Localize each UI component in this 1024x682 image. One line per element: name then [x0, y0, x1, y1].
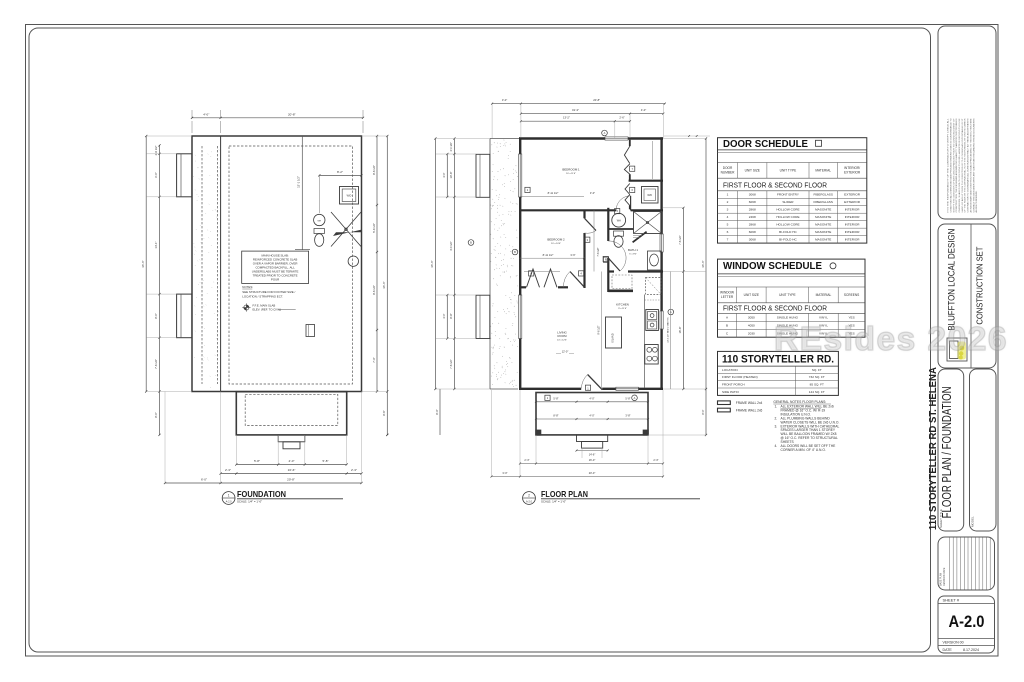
REsides watermark: [774, 321, 1008, 359]
svg-text:7'-6 1/2": 7'-6 1/2": [154, 359, 158, 369]
svg-text:FIBERGLASS: FIBERGLASS: [813, 200, 832, 204]
foundation slab outline: [192, 136, 362, 392]
window schedule tag symbol: [830, 263, 836, 269]
foundation porch slab: [236, 392, 346, 435]
bath toilet: [614, 231, 624, 236]
door schedule tag symbol: [816, 140, 822, 146]
svg-text:FRAME WALL 2x4: FRAME WALL 2x4: [736, 401, 763, 405]
svg-text:REVISION DATE: REVISION DATE: [943, 567, 946, 586]
svg-text:POUR: POUR: [271, 277, 279, 281]
svg-text:2868: 2868: [749, 208, 756, 212]
entry door tag: [585, 385, 590, 390]
svg-text:NUMBER: NUMBER: [721, 170, 736, 174]
svg-text:4'-0": 4'-0": [442, 172, 446, 177]
svg-text:SHEET TITLE: SHEET TITLE: [939, 509, 943, 528]
svg-text:8'-2": 8'-2": [337, 170, 343, 174]
svg-text:VERSION 00: VERSION 00: [943, 640, 964, 644]
svg-text:4'-0": 4'-0": [641, 108, 646, 112]
interior wall bedrooms divider: [519, 209, 616, 211]
floor plan entry door leaf: [588, 375, 603, 390]
floor plan window right wall kitchen: [660, 311, 663, 329]
svg-text:8.17.2024: 8.17.2024: [963, 648, 979, 652]
svg-text:2'-6": 2'-6": [619, 116, 624, 120]
floor plan bench pad left lower: [476, 295, 490, 338]
bath vanity: [648, 251, 662, 270]
svg-text:110 STORYTELLER RD ST. HELENA: 110 STORYTELLER RD ST. HELENA: [928, 367, 939, 530]
foundation interior dim line vertical: [301, 136, 303, 250]
svg-text:LOCATION: LOCATION: [722, 368, 738, 372]
svg-text:OMISSIONS, SHARED SOUTH OR DON: OMISSIONS, SHARED SOUTH OR DONE THIS WIL…: [958, 118, 961, 213]
svg-text:FRONT PORCH: FRONT PORCH: [722, 383, 745, 387]
svg-text:2'-3": 2'-3": [653, 458, 658, 462]
svg-text:CONSTRUCTION. THE DESIGNER ASS: CONSTRUCTION. THE DESIGNER ASSUMES NO LI…: [955, 118, 958, 213]
svg-text:3050: 3050: [748, 316, 755, 320]
svg-text:36'-6": 36'-6": [141, 260, 145, 267]
svg-text:UNIT TYPE: UNIT TYPE: [779, 293, 796, 297]
bedroom1 interior dim: [520, 196, 584, 198]
svg-text:CONSTRUCTION SET: CONSTRUCTION SET: [974, 247, 984, 325]
porch dim row2: [536, 418, 648, 420]
bedroom2 entry door: [570, 272, 585, 288]
svg-text:20'-8": 20'-8": [287, 478, 295, 482]
svg-text:3'-0": 3'-0": [502, 98, 507, 102]
svg-text:4'-0": 4'-0": [203, 113, 209, 117]
svg-text:ISLAND: ISLAND: [611, 333, 615, 342]
svg-text:SINGLE HUNG: SINGLE HUNG: [777, 316, 799, 320]
svg-text:1: 1: [727, 193, 729, 197]
svg-text:6'-0": 6'-0": [201, 478, 207, 482]
foundation left footing pad top: [177, 154, 192, 197]
svg-text:IT IS THE RESPONSIBILITY OF TH: IT IS THE RESPONSIBILITY OF THE CONTRACT…: [947, 119, 950, 213]
interior wall bedroom2 bottom: [519, 286, 526, 288]
foundation title marker: [222, 492, 235, 505]
svg-text:16'-8": 16'-8": [678, 327, 682, 334]
svg-text:YES: YES: [848, 316, 854, 320]
svg-text:HOLLOW CORE: HOLLOW CORE: [776, 215, 799, 219]
svg-text:4'-0": 4'-0": [589, 414, 594, 418]
svg-text:W/D: W/D: [347, 195, 352, 198]
svg-text:MATERIAL: MATERIAL: [815, 169, 831, 173]
svg-text:(4'-0 1/2" BED 2 VANITY): (4'-0 1/2" BED 2 VANITY): [667, 317, 670, 342]
svg-text:EXTERIOR: EXTERIOR: [844, 170, 861, 174]
svg-text:MASONITE: MASONITE: [815, 238, 831, 242]
svg-text:BATH 1: BATH 1: [628, 248, 638, 252]
svg-text:A: A: [634, 396, 636, 400]
svg-text:36'-6": 36'-6": [430, 260, 434, 267]
svg-text:INTERIOR: INTERIOR: [845, 223, 861, 227]
floor plan window top wall: [605, 137, 628, 140]
svg-text:SLIDER: SLIDER: [782, 200, 794, 204]
bath door arc: [608, 258, 620, 271]
svg-text:CONDITIONS ALL DIMENSIONS AND: CONDITIONS ALL DIMENSIONS AND PROCEED OR…: [949, 118, 952, 213]
bedroom1 closet bifold chevrons: [629, 140, 631, 147]
svg-text:20'-8": 20'-8": [288, 113, 296, 117]
floor plan exterior wall top: [519, 137, 605, 139]
svg-text:A-2.0: A-2.0: [526, 500, 533, 503]
foundation W/D unit: [340, 187, 359, 205]
svg-text:FIBERGLASS: FIBERGLASS: [813, 193, 832, 197]
svg-text:ALL RIGHTS RESERVED.: ALL RIGHTS RESERVED.: [975, 190, 978, 212]
svg-text:20'-8": 20'-8": [593, 98, 600, 102]
svg-text:MASONITE: MASONITE: [815, 223, 831, 227]
svg-text:732 SQ. FT: 732 SQ. FT: [809, 375, 825, 379]
foundation FFE benchmark symbol: [244, 305, 249, 310]
svg-text:9'-6 1/2": 9'-6 1/2": [372, 285, 376, 295]
svg-text:C: C: [726, 331, 729, 335]
svg-text:3.: 3.: [775, 424, 778, 428]
floor plan steps: [577, 435, 608, 442]
floor plan window right wall bath: [660, 234, 663, 252]
svg-text:4: 4: [580, 272, 582, 276]
svg-text:BEDROOM 2: BEDROOM 2: [547, 237, 565, 241]
foundation main slab note box: [242, 251, 309, 283]
svg-text:7'-0": 7'-0": [372, 357, 376, 362]
svg-text:CORNER A MIN. OF 4" U.N.O.: CORNER A MIN. OF 4" U.N.O.: [781, 448, 826, 452]
svg-text:DOOR SCHEDULE: DOOR SCHEDULE: [723, 139, 808, 150]
svg-text:3'-0": 3'-0": [590, 191, 595, 195]
svg-text:8'-0": 8'-0": [154, 313, 158, 319]
svg-text:3068: 3068: [749, 193, 756, 197]
svg-text:6068: 6068: [749, 200, 756, 204]
svg-text:5'-8": 5'-8": [323, 459, 329, 463]
svg-text:8'-8": 8'-8": [449, 313, 453, 318]
bath shower: [634, 212, 662, 234]
frame wall legend 2x4: [718, 401, 731, 405]
svg-text:4'-0 1/2": 4'-0 1/2": [449, 241, 453, 251]
floor plan top dimension tiers: [492, 103, 665, 105]
svg-text:A: A: [604, 131, 606, 135]
svg-text:2468: 2468: [749, 215, 756, 219]
svg-text:3068: 3068: [749, 238, 756, 242]
svg-text:MASONITE: MASONITE: [815, 215, 831, 219]
svg-text:9'-6 1/2": 9'-6 1/2": [598, 325, 601, 334]
foundation bottom extension lines: [235, 435, 237, 465]
svg-text:3: 3: [587, 238, 589, 242]
floor plan window left wall lower: [519, 295, 522, 339]
svg-text:1: 1: [228, 493, 230, 497]
bath water heater: [612, 213, 626, 227]
svg-text:DATE: DATE: [943, 648, 953, 652]
floor plan exterior wall left: [519, 137, 521, 154]
interior wall bedroom2 right: [583, 210, 585, 218]
frame wall legend 2x6: [718, 408, 731, 412]
floor plan window bottom wall: [616, 387, 639, 390]
floor plan bench pad left upper: [476, 154, 490, 197]
svg-text:2868: 2868: [749, 223, 756, 227]
bedroom2 entry door: [585, 218, 597, 230]
svg-text:6: 6: [631, 188, 633, 192]
bedroom1 closet wall: [629, 180, 663, 182]
svg-text:10' x 10'6": 10' x 10'6": [551, 243, 561, 245]
floor plan left dimension stack: [453, 139, 455, 390]
steps dim: [577, 450, 608, 452]
floor plan patio left edge: [489, 139, 491, 390]
wh closet door: [630, 196, 632, 211]
svg-text:FLOOR PLAN / FOUNDATION: FLOOR PLAN / FOUNDATION: [939, 386, 954, 518]
svg-text:1: 1: [547, 396, 549, 400]
svg-text:4'-0": 4'-0": [289, 459, 295, 463]
svg-text:3'-0": 3'-0": [502, 471, 507, 475]
svg-text:UNIT SIZE: UNIT SIZE: [744, 293, 759, 297]
kitchen sink unit: [646, 310, 659, 331]
foundation toilet: [314, 229, 324, 234]
svg-text:INTERIOR: INTERIOR: [845, 208, 861, 212]
svg-text:W/D: W/D: [647, 194, 652, 197]
svg-text:5' x 9'6": 5' x 9'6": [629, 254, 637, 256]
svg-text:36'-6": 36'-6": [701, 260, 705, 267]
wd closet bifold chevrons: [625, 184, 630, 206]
foundation porch footing dashed: [245, 394, 338, 425]
svg-text:ROOM: ROOM: [558, 334, 568, 338]
svg-text:5'-8": 5'-8": [553, 397, 558, 401]
svg-text:A: A: [726, 316, 729, 320]
svg-text:WINDOW SCHEDULE: WINDOW SCHEDULE: [723, 261, 822, 272]
svg-text:7'-6 1/2": 7'-6 1/2": [449, 359, 453, 369]
bedroom2 interior dim: [520, 257, 584, 259]
svg-text:14' x 12'6": 14' x 12'6": [557, 340, 567, 342]
kitchen counter edge: [644, 295, 646, 389]
floor plan exterior wall bottom: [519, 388, 581, 390]
svg-text:8'-6 1/2": 8'-6 1/2": [372, 165, 376, 175]
svg-text:FLOOR PLAN: FLOOR PLAN: [541, 489, 588, 499]
svg-text:UNIT SIZE: UNIT SIZE: [745, 169, 760, 173]
foundation round sink: [348, 256, 358, 266]
svg-text:8'-0": 8'-0": [435, 409, 439, 414]
svg-text:8'-0": 8'-0": [154, 412, 158, 418]
svg-text:14'-6": 14'-6": [589, 453, 596, 457]
svg-text:7'-6 1/2": 7'-6 1/2": [597, 247, 600, 256]
svg-text:14'-1": 14'-1": [154, 241, 158, 248]
svg-text:85 SQ. FT: 85 SQ. FT: [810, 383, 824, 387]
svg-text:6'-0": 6'-0": [154, 172, 158, 178]
svg-text:A: A: [670, 310, 672, 314]
foundation left extension lines: [146, 135, 192, 137]
svg-text:NOTIFY THE DESIGNER OF ANY DIS: NOTIFY THE DESIGNER OF ANY DISCREPANCIES…: [952, 117, 955, 212]
svg-text:MASONITE: MASONITE: [815, 208, 831, 212]
porch dim row1: [536, 401, 648, 403]
window schedule table: [718, 259, 866, 337]
floor plan right dimension stack: [670, 272, 672, 390]
svg-text:BI-FOLD HC: BI-FOLD HC: [779, 230, 797, 234]
svg-text:MODEL: MODEL: [971, 516, 975, 527]
foundation left dimension stack: [159, 145, 161, 391]
svg-text:5'-8": 5'-8": [625, 397, 630, 401]
foundation 8-2 dim: [319, 174, 361, 176]
door schedule table: [718, 138, 867, 243]
foundation small drain box: [306, 325, 315, 337]
svg-text:5'-8": 5'-8": [254, 459, 260, 463]
svg-text:2'-0 1/2": 2'-0 1/2": [450, 142, 453, 151]
floor plan exterior wall right: [660, 137, 662, 234]
foundation shower: [331, 212, 361, 247]
foundation plan group: [141, 110, 389, 504]
door tag squares: [525, 187, 530, 192]
svg-text:B: B: [726, 323, 728, 327]
svg-text:19'-3": 19'-3": [572, 108, 579, 112]
copyright fine print: [947, 117, 979, 212]
svg-text:2: 2: [727, 200, 729, 204]
svg-text:7: 7: [631, 167, 633, 171]
svg-text:EXTERIOR: EXTERIOR: [844, 200, 861, 204]
svg-text:2'-3": 2'-3": [351, 468, 357, 472]
svg-text:CONTACT THE DESIGNER WITH ANY: CONTACT THE DESIGNER WITH ANY QUESTIONS …: [972, 118, 975, 213]
svg-text:CONTRACTOR TO COORDINATE ALL C: CONTRACTOR TO COORDINATE ALL CURB SUBCON…: [967, 118, 970, 213]
svg-text:EXTERIOR: EXTERIOR: [844, 193, 861, 197]
svg-text:2: 2: [528, 493, 530, 497]
svg-text:3: 3: [727, 208, 729, 212]
svg-text:SHEET #: SHEET #: [943, 598, 960, 603]
svg-text:10'-8": 10'-8": [449, 172, 453, 179]
floor plan bottom dim row: [520, 463, 663, 465]
svg-text:8'-11 1/2": 8'-11 1/2": [548, 191, 559, 195]
foundation left footing pad bottom: [177, 294, 192, 338]
svg-text:1.: 1.: [775, 405, 778, 409]
svg-text:8'-6": 8'-6": [382, 410, 386, 415]
svg-text:B: B: [470, 241, 472, 245]
svg-text:6: 6: [727, 230, 729, 234]
svg-text:16'-6": 16'-6": [288, 468, 296, 472]
svg-text:BI-FOLD HC: BI-FOLD HC: [779, 238, 797, 242]
sheet number box: [938, 596, 995, 653]
foundation footing dashed rect main: [229, 146, 353, 384]
svg-text:A-2.0: A-2.0: [226, 500, 233, 503]
bedroom2 closet bifold doors: [527, 269, 540, 287]
svg-text:FRAME WALL 2x6: FRAME WALL 2x6: [736, 409, 763, 413]
floor plan title marker: [523, 492, 536, 505]
shower curb: [633, 232, 647, 243]
svg-text:4'-0": 4'-0": [442, 313, 446, 318]
svg-text:6068: 6068: [749, 230, 756, 234]
svg-text:LOCATION / STRAPPING ECT.: LOCATION / STRAPPING ECT.: [242, 295, 283, 299]
svg-text:2'-3": 2'-3": [225, 468, 231, 472]
wh closet wall: [609, 228, 634, 230]
interior wall bath bottom: [608, 270, 614, 272]
svg-text:WH: WH: [617, 219, 621, 222]
svg-text:NOTES:: NOTES:: [242, 285, 253, 289]
foundation patio strip line: [220, 136, 222, 392]
svg-text:4'-0": 4'-0": [589, 397, 594, 401]
foundation patio speckle texture: [194, 150, 220, 388]
svg-text:FIRST FLOOR & SECOND FLOOR: FIRST FLOOR & SECOND FLOOR: [723, 303, 827, 312]
svg-text:UNIT TYPE: UNIT TYPE: [780, 169, 797, 173]
W/D unit floor plan: [642, 187, 659, 204]
storyteller address table: [718, 351, 839, 395]
svg-text:4.: 4.: [775, 444, 778, 448]
svg-text:3'-6": 3'-6": [570, 253, 575, 257]
svg-text:3'-8": 3'-8": [625, 414, 630, 418]
svg-text:SCALE: 1/4" = 1'-0": SCALE: 1/4" = 1'-0": [237, 499, 262, 503]
window tag circles: [602, 130, 608, 136]
svg-text:BLUFFTON LOCAL DESIGN: BLUFFTON LOCAL DESIGN: [946, 229, 957, 331]
floor plan porch: [536, 393, 648, 435]
hall dim line: [593, 210, 595, 271]
svg-text:LETTER: LETTER: [721, 295, 734, 299]
svg-text:KITCHEN: KITCHEN: [616, 302, 629, 306]
svg-text:SEE STRUCTURE FOR FOOTER SIZE: SEE STRUCTURE FOR FOOTER SIZE /: [242, 290, 295, 294]
model box: [970, 369, 997, 531]
floor plan window left wall upper: [519, 154, 522, 197]
svg-text:HOLLOW CORE: HOLLOW CORE: [776, 208, 799, 212]
sheet title box: [938, 369, 964, 531]
svg-text:2: 2: [527, 188, 529, 192]
svg-text:AS NECESSARY AND CONSTRUCTION: AS NECESSARY AND CONSTRUCTION GOALS PROC…: [969, 118, 972, 213]
svg-text:FRONT ENTRY: FRONT ENTRY: [777, 193, 799, 197]
svg-text:5: 5: [727, 223, 729, 227]
svg-text:MATERIAL: MATERIAL: [816, 293, 832, 297]
svg-text:INTERIOR: INTERIOR: [845, 215, 861, 219]
title strip copyright box: [938, 26, 996, 219]
svg-text:SIDE PATIO: SIDE PATIO: [722, 390, 739, 394]
svg-text:9' x 11'6": 9' x 11'6": [618, 308, 627, 310]
svg-text:7'-6 1/2": 7'-6 1/2": [678, 235, 682, 245]
revision table box: [938, 537, 995, 590]
svg-text:144 SQ. FT: 144 SQ. FT: [809, 390, 825, 394]
svg-text:2030: 2030: [748, 331, 755, 335]
svg-text:A-2.0: A-2.0: [949, 612, 985, 631]
foundation right dimension stack: [376, 136, 378, 392]
svg-text:MASONITE: MASONITE: [815, 230, 831, 234]
interior wall hall/bath left: [607, 208, 609, 241]
svg-text:4050: 4050: [748, 323, 755, 327]
floor plan patio band speckles: [491, 140, 519, 387]
floor plan group: [430, 98, 710, 504]
svg-text:OF THE ROAR BY THE CONTRACTUAL: OF THE ROAR BY THE CONTRACTUAL TO IT THE…: [964, 118, 967, 213]
svg-text:SCALE: 1/4" = 1'-0": SCALE: 1/4" = 1'-0": [541, 499, 566, 503]
svg-text:ELEV. (REF. TO CIVIL): ELEV. (REF. TO CIVIL): [253, 307, 282, 311]
svg-text:8'-0": 8'-0": [701, 409, 705, 414]
foundation footing dashed line left band: [201, 146, 203, 384]
foundation water heater: [314, 214, 325, 225]
svg-text:16'-0": 16'-0": [589, 458, 596, 462]
svg-text:8'-8": 8'-8": [553, 414, 558, 418]
svg-text:13'-2": 13'-2": [563, 116, 570, 120]
svg-text:7: 7: [727, 238, 729, 242]
svg-text:FIRST FLOOR (HEATED): FIRST FLOOR (HEATED): [722, 375, 758, 379]
svg-text:INTERIOR: INTERIOR: [845, 230, 861, 234]
svg-text:2.: 2.: [775, 416, 778, 420]
svg-text:B: B: [514, 250, 516, 254]
kitchen stove: [645, 345, 658, 365]
svg-text:BEDROOM 1: BEDROOM 1: [562, 168, 580, 172]
svg-text:FIRST FLOOR & SECOND FLOOR: FIRST FLOOR & SECOND FLOOR: [723, 181, 827, 190]
svg-text:SQ. FT: SQ. FT: [812, 368, 822, 372]
fridge dashed: [646, 278, 662, 295]
svg-text:HAND OF ADULT FROM THE DIRECTI: HAND OF ADULT FROM THE DIRECTION OF THE …: [961, 117, 964, 212]
foundation bottom dimension rows: [236, 464, 346, 466]
kitchen island: [606, 317, 622, 348]
general notes: [773, 400, 839, 452]
svg-text:13'-1 1/2": 13'-1 1/2": [297, 176, 301, 188]
svg-text:5: 5: [616, 209, 618, 213]
svg-text:HOLLOW CORE: HOLLOW CORE: [776, 223, 799, 227]
svg-text:INTERIOR: INTERIOR: [845, 238, 861, 242]
svg-text:VINYL: VINYL: [819, 316, 828, 320]
svg-text:10' x 11'6": 10' x 11'6": [566, 173, 576, 175]
title strip logo box: [938, 224, 996, 368]
foundation top dimension line: [192, 117, 363, 119]
bluffton logo mark: [947, 338, 967, 361]
svg-text:4: 4: [727, 215, 729, 219]
svg-text:SCREENS: SCREENS: [844, 293, 859, 297]
foundation steps: [278, 435, 305, 442]
svg-text:20'-0": 20'-0": [589, 471, 596, 475]
pantry below bath: [608, 289, 633, 292]
svg-text:FOUNDATION: FOUNDATION: [237, 489, 286, 499]
svg-text:2'-3": 2'-3": [524, 458, 529, 462]
svg-text:WH: WH: [317, 220, 321, 222]
svg-text:5'-8 1/2": 5'-8 1/2": [372, 223, 376, 233]
svg-text:12'-0": 12'-0": [562, 350, 569, 354]
